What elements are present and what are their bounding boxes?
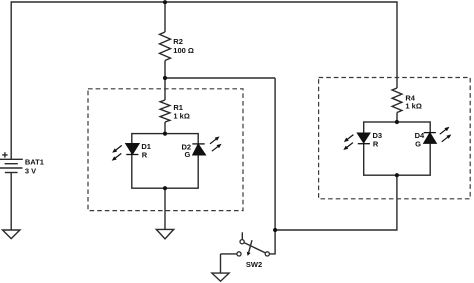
svg-text:1 kΩ: 1 kΩ — [173, 112, 189, 121]
svg-text:3 V: 3 V — [25, 167, 36, 176]
svg-text:100 Ω: 100 Ω — [173, 46, 194, 55]
svg-text:SW2: SW2 — [246, 260, 262, 269]
svg-text:BAT1: BAT1 — [25, 158, 44, 167]
svg-text:R2: R2 — [173, 37, 183, 46]
svg-text:1 kΩ: 1 kΩ — [405, 101, 421, 110]
svg-text:R: R — [142, 151, 148, 160]
svg-text:G: G — [415, 139, 421, 148]
svg-text:G: G — [185, 150, 191, 159]
svg-text:R: R — [373, 140, 379, 149]
svg-text:R1: R1 — [173, 103, 183, 112]
